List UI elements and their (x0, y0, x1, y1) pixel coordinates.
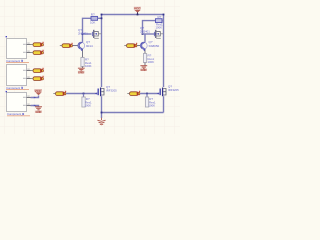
node right rail corner (163, 14, 165, 16)
svg-text:100K: 100K (148, 60, 155, 64)
power VCC at U3 (34, 89, 42, 95)
node Q1 gate junction (82, 33, 84, 35)
wire Q1 collector up (82, 34, 84, 42)
label U3 (7, 112, 30, 116)
wire U3 pin1 to VCC (31, 96, 39, 99)
label U2 (6, 86, 29, 90)
label U1 (6, 59, 29, 63)
capacitor C1 (31, 42, 44, 47)
svg-text:IRF3205: IRF3205 (106, 89, 117, 93)
wire Q2 collector up (144, 34, 146, 42)
power VCC top (134, 6, 141, 15)
wire pullup vertical right (143, 21, 156, 34)
wire Q1 emitter down (82, 49, 84, 57)
ground GND at U3 (35, 107, 42, 114)
transistor Q3 (left upper PMOS) (78, 28, 102, 38)
wire U3 pin2 to GND (31, 105, 39, 107)
svg-text:SS8050: SS8050 (149, 44, 160, 48)
capacitor C4 (31, 76, 44, 81)
svg-text:100K: 100K (156, 26, 163, 30)
wire gate line left cluster (83, 33, 92, 35)
capacitor C7 (53, 91, 66, 96)
ground GND right emitter (140, 66, 147, 72)
svg-text:IRF3205: IRF3205 (168, 88, 179, 92)
wire left rail vertical (101, 15, 103, 88)
resistor R5 (left pulldown) (82, 94, 92, 108)
svg-text:10K: 10K (90, 21, 95, 25)
capacitor C2 (31, 50, 44, 55)
transistor Q1 (left BJT) (78, 40, 93, 51)
transistor Q2 (right BJT) (140, 40, 159, 51)
svg-text:GND: GND (35, 110, 41, 114)
resistor R4 (right emitter) (143, 54, 154, 66)
capacitor C5 (60, 43, 78, 48)
svg-text:VCC: VCC (134, 6, 141, 10)
resistor R3 (left emitter) (81, 58, 92, 69)
resistor R2 (right pull-up) (156, 15, 164, 29)
component block U1 (6, 36, 31, 59)
node left rail corner (101, 14, 103, 16)
ground earth bottom (97, 118, 105, 125)
node Q2 gate junction (142, 33, 144, 35)
capacitor C8 (127, 91, 140, 96)
capacitor C3 (31, 68, 44, 73)
svg-text:2N5401: 2N5401 (140, 30, 150, 34)
wire gate line right cluster (143, 33, 157, 35)
wire bottom connecting sources (102, 112, 164, 114)
capacitor C6 (124, 43, 140, 48)
svg-text:100K: 100K (85, 104, 92, 108)
svg-text:R?: R? (158, 15, 162, 19)
wire pullup vertical left (83, 18, 92, 34)
node left gate junction (83, 93, 85, 95)
transistor Q4 (right upper PMOS) (140, 26, 164, 38)
svg-text:GND: GND (141, 68, 147, 72)
svg-text:9014: 9014 (86, 44, 93, 48)
component block U3 (6, 91, 31, 112)
svg-text:2N5401: 2N5401 (78, 32, 88, 36)
ground GND left emitter (78, 68, 85, 74)
resistor R6 (right pulldown) (145, 94, 156, 108)
wire right rail vertical (163, 15, 165, 88)
wire C7 to M1 gate (66, 93, 96, 95)
resistor R1 (left pull-up) (90, 12, 102, 24)
wire top VCC rail (102, 14, 164, 16)
component block U2 (7, 65, 31, 86)
wire Q2 emitter down (144, 49, 146, 53)
wire M1 source down (101, 96, 103, 118)
wire C8 to M2 gate (140, 93, 158, 95)
svg-text:100K: 100K (149, 104, 156, 108)
svg-text:GND: GND (78, 71, 84, 75)
wire M2 source down (163, 96, 165, 112)
svg-text:R?: R? (91, 12, 95, 16)
transistor M1 (left MOSFET) (95, 85, 118, 96)
node bottom junction (101, 112, 103, 114)
svg-text:VCC: VCC (35, 89, 42, 93)
transistor M2 (right MOSFET) (157, 85, 180, 97)
node right gate junction (146, 93, 148, 95)
svg-text:100K: 100K (85, 64, 92, 68)
